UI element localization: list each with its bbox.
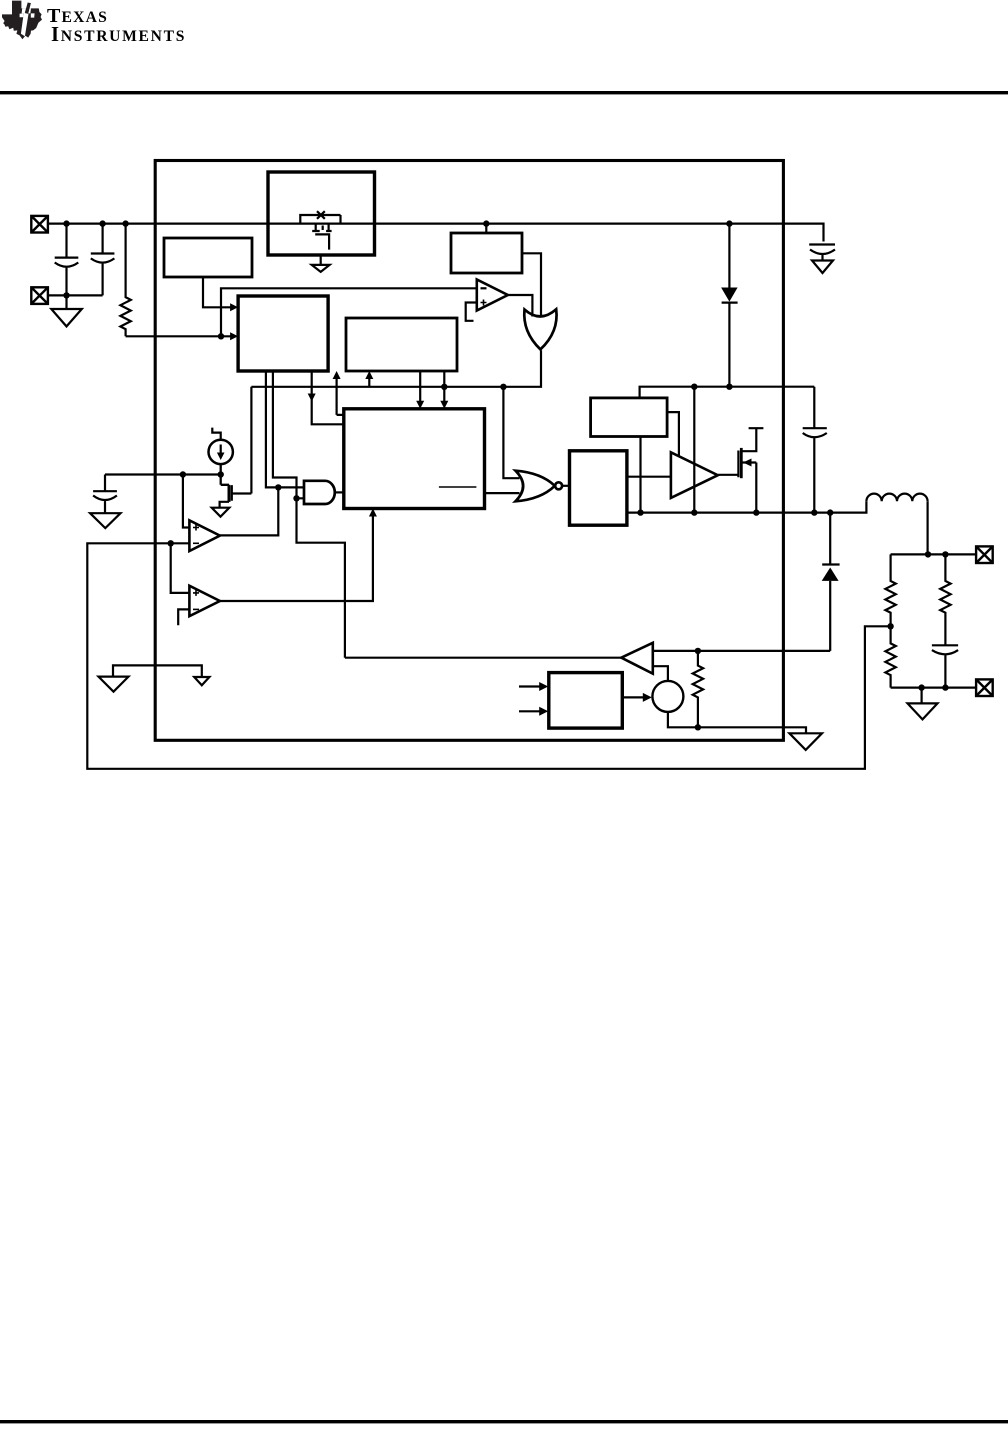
wire: U5 minus reference stub — [178, 609, 189, 625]
resistor R4 — [120, 224, 130, 337]
wire: box3 to OR gate — [522, 253, 541, 317]
wire: left rail to current source node — [105, 473, 221, 475]
op-amp U3 (comparator) — [477, 280, 508, 311]
wire: NOR output to driver block — [562, 485, 569, 487]
wire: U3 output to OR gate — [508, 295, 533, 317]
wire: pin2 to caps — [48, 294, 103, 296]
wire: U5 plus feed from FB node — [171, 543, 190, 593]
capacitor C4 with ground — [90, 475, 120, 529]
IC boundary U1 — [155, 161, 783, 741]
current source I1 — [209, 428, 233, 464]
wire: buffer to Q1 gate — [718, 474, 739, 476]
wire: box A to PWM latch with down arrow — [312, 371, 344, 424]
capacitor C5 (output) — [932, 645, 958, 687]
resistor R2 (feedback bottom) — [885, 626, 895, 687]
capacitor C3 — [803, 387, 827, 513]
gate G2 (AND) — [304, 481, 335, 504]
wire: PWM latch to box A with up arrow — [337, 376, 344, 415]
wire: VIN supply rail — [48, 224, 824, 242]
capacitor C2 — [91, 224, 115, 296]
wire: bus1 down to NOR input1 — [503, 387, 519, 478]
wire: bus1 arrow up into box B — [368, 376, 370, 387]
block: pass device (box2) — [268, 172, 375, 255]
wire: box A down to AND input2 — [273, 371, 304, 498]
node: supply junction dots — [63, 220, 732, 226]
op-amp U5 (comparator 2) — [189, 586, 220, 617]
ground G1 — [51, 295, 82, 326]
wire: U5 output to PWM latch bottom with up arrow — [220, 513, 373, 601]
wire: box A down-left to AND input1 — [266, 371, 304, 487]
capacitor C1 — [55, 224, 79, 296]
resistor R3 (ESR) — [940, 554, 950, 645]
resistor R1 (feedback top) — [885, 554, 895, 626]
block: ramp generator (box B) — [346, 318, 457, 371]
wire: box B to PWM latch arrow 2 — [443, 371, 445, 405]
inverter U6 (points left) — [621, 643, 653, 674]
wire: comparator U4 output up to AND input1 — [220, 487, 278, 535]
wire: supply to box3 — [485, 224, 487, 233]
block: control logic (box A) — [238, 296, 328, 371]
wire: box D bottom to source bus — [639, 437, 641, 513]
ground G2 under box2 — [312, 255, 330, 272]
wire: box D right to driver buffer — [667, 412, 679, 456]
wire: current source node to U4 plus — [183, 475, 190, 528]
pin P2 (GND) — [31, 287, 48, 304]
wire: box1 to control block with arrow — [203, 277, 233, 307]
block: UVLO (box3) — [451, 233, 522, 273]
capacitor-ground G3b (top right bypass) — [809, 245, 835, 274]
pin P1 (VIN) — [31, 216, 48, 233]
multiplier X1 — [652, 681, 683, 712]
wire: box D top to bus2 — [640, 387, 815, 398]
wire: FB sense loop — [87, 543, 890, 769]
wire: AND output to PWM latch — [335, 491, 344, 493]
wire: box C to driver buffer input — [627, 476, 671, 478]
gate G1 (OR, pointing down) — [524, 309, 556, 349]
block: PWM latch (big box) — [344, 409, 485, 509]
wire: R4 to control block with arrow — [126, 335, 233, 337]
footer rule — [0, 1420, 1008, 1423]
node: bus1 dots — [441, 384, 507, 390]
wire: source bus (SW) — [627, 501, 867, 512]
op-amp U4 (comparator 1) — [189, 520, 220, 551]
wire: U3 plus reference stub — [466, 303, 477, 321]
pass FET detail inside box2 — [300, 211, 340, 249]
ground G8 (AGND) — [789, 733, 822, 750]
block: driver logic (box C) — [570, 451, 627, 525]
wire: PWM latch output to NOR input2 — [485, 492, 520, 494]
wire: output node — [891, 553, 977, 555]
diode D1 — [721, 224, 738, 387]
wire: inverter lower input to multiplier — [653, 666, 668, 681]
pin P4 (GND2) — [976, 679, 993, 696]
Texas Instruments logo text — [47, 5, 108, 28]
block: reference (box1) — [164, 238, 252, 277]
label underline inside PWM latch — [439, 486, 477, 488]
header rule — [0, 91, 1008, 94]
resistor R5 — [693, 651, 703, 727]
block: oscillator (box E) — [549, 673, 623, 729]
TI logo bug — [2, 1, 42, 40]
wire: D2 anode to inverter input — [653, 650, 830, 652]
ground G6 (inner small) — [194, 677, 209, 685]
wire: osc output arrow to multiplier — [622, 696, 646, 698]
wire: osc input arrow 1 — [519, 685, 543, 687]
block: gate regulator (box D) — [591, 398, 668, 437]
wire: OR output to bus1 — [251, 350, 541, 387]
diode D2 — [822, 513, 840, 651]
wire: multiplier bottom to R5 bottom and AGND — [668, 712, 806, 733]
wire: rail bus2 to SW bus — [693, 387, 695, 513]
gate G3 (NOR) — [516, 471, 563, 502]
ground G5 under Q2 — [212, 508, 230, 517]
pin P3 (VOUT) — [976, 546, 993, 563]
wire: bus1 down to Q2 gate — [250, 387, 252, 494]
wire: AND input2 down to inverter output wire — [297, 498, 345, 657]
ground G7 (outer) — [99, 677, 129, 692]
wire: box B to PWM latch arrow 1 — [419, 371, 421, 405]
wire: comparator U3 minus feed — [221, 288, 477, 336]
wire: inner ground tie — [113, 665, 202, 677]
transistor Q1 (power FET) — [738, 428, 763, 512]
inductor L1 — [866, 494, 927, 555]
driver buffer U7 — [671, 452, 718, 498]
node: AND input dots — [275, 484, 300, 501]
wire: osc input arrow 2 — [519, 710, 543, 712]
ground G9 — [908, 688, 938, 720]
wire: output ground rail — [891, 686, 977, 688]
transistor Q2 (foldback FET) — [220, 464, 252, 508]
wire: inverter output to AND branch — [345, 657, 621, 659]
